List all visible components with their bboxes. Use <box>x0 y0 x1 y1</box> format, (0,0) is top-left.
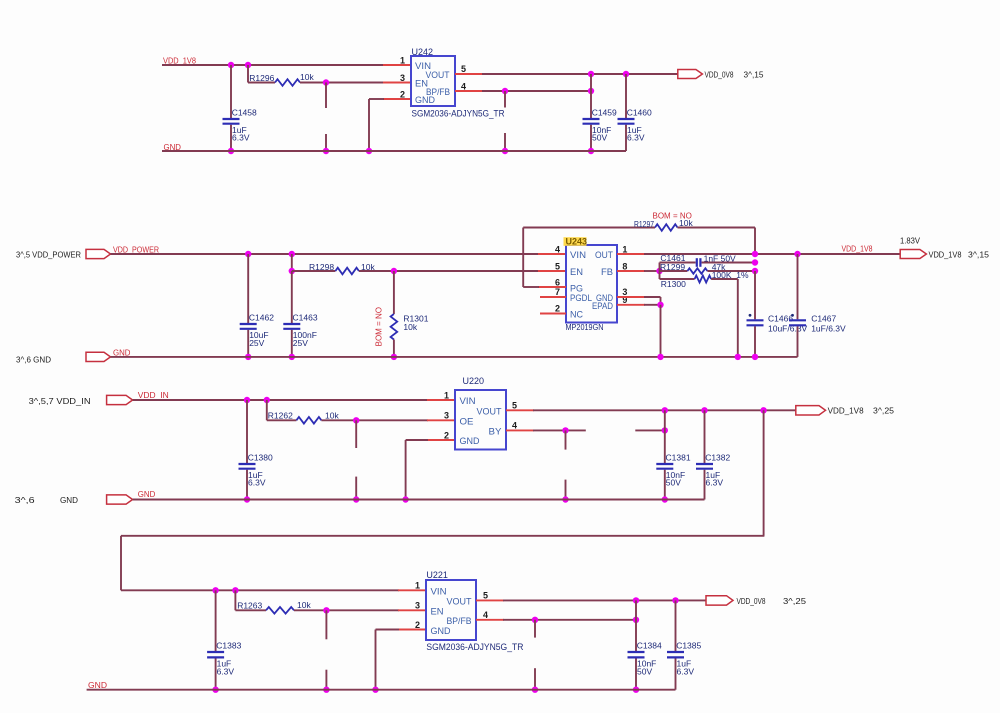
svg-text:OUT: OUT <box>595 250 613 261</box>
svg-text:VDD_1V8: VDD_1V8 <box>163 56 196 66</box>
wire C1461 right lead <box>702 262 755 264</box>
svg-text:7: 7 <box>555 287 560 297</box>
svg-text:C1466: C1466 <box>768 313 793 323</box>
junction C1458 on GND rail <box>228 148 234 154</box>
wire R1300 to GND <box>711 278 738 280</box>
svg-text:C1459: C1459 <box>592 108 617 118</box>
junction DNI stub on GND rail (x=535) <box>532 687 538 693</box>
svg-text:MP2019GN: MP2019GN <box>566 322 604 332</box>
highlight behind U243 refdes <box>564 237 587 246</box>
junction VOUT at C1381 <box>662 407 668 413</box>
svg-text:GND: GND <box>431 626 451 637</box>
wire DNI stub lower (x=326) <box>325 134 327 151</box>
GND rail section 3 <box>133 499 705 501</box>
junction at C1383 <box>212 587 218 593</box>
junction at C1462 <box>245 251 251 257</box>
svg-text:10k: 10k <box>300 72 314 82</box>
resistor R1300 <box>695 276 712 283</box>
output port VDD_1V8 (section 3) <box>796 406 826 415</box>
svg-text:1: 1 <box>444 390 449 400</box>
svg-text:GND: GND <box>138 489 156 499</box>
svg-text:VIN: VIN <box>570 250 586 261</box>
svg-text:1uF/6.3V: 1uF/6.3V <box>811 323 846 333</box>
junction OUT at R1297/C1466 trunk <box>752 251 758 257</box>
resistor R1296 <box>275 79 300 86</box>
svg-text:C1383: C1383 <box>216 641 241 651</box>
capacitor C1463 <box>291 271 293 323</box>
pin stub U220 pin 1 VIN <box>427 399 455 401</box>
svg-text:VOUT: VOUT <box>426 70 450 81</box>
input port GND (section 3) <box>107 495 133 504</box>
capacitor C1462 <box>247 254 249 323</box>
resistor R1298 <box>335 268 359 275</box>
wire PG feedback loop <box>523 286 539 288</box>
IC U242 body <box>411 56 455 106</box>
input port GND (section 2) <box>86 352 111 361</box>
svg-text:4: 4 <box>483 610 488 620</box>
wire R1298 left lead <box>292 270 336 272</box>
wire R1300 left lead <box>660 278 695 280</box>
svg-text:VDD_0V8: VDD_0V8 <box>737 596 766 606</box>
pin stub U243 pin 1 OUT <box>617 253 645 255</box>
svg-text:C1460: C1460 <box>627 108 652 118</box>
wire R1300 branch drop <box>659 271 661 279</box>
IC U243 body <box>566 245 617 323</box>
capacitor C1382 <box>704 410 706 463</box>
wire DNI stub upper (x=356) <box>355 420 357 448</box>
svg-text:VDD_1V8: VDD_1V8 <box>842 244 873 254</box>
svg-text:EN: EN <box>570 267 583 278</box>
pin stub U221 pin 4 BP/FB <box>476 619 504 621</box>
svg-text:1.83V: 1.83V <box>900 237 921 246</box>
svg-text:C1385: C1385 <box>676 641 701 651</box>
pin stub U243 pin 4 VIN <box>538 253 566 255</box>
svg-text:GND: GND <box>415 95 435 106</box>
svg-text:SGM2036-ADJYN5G_TR: SGM2036-ADJYN5G_TR <box>412 109 505 119</box>
pin stub U243 pin 7 PGDL (no connect) <box>540 296 566 298</box>
svg-text:R1298: R1298 <box>309 262 334 272</box>
svg-text:5: 5 <box>512 401 517 411</box>
junction DNI stub on GND rail <box>323 148 329 154</box>
wire R1301 bottom lead <box>393 340 395 357</box>
wire R1301 top lead <box>393 271 395 314</box>
capacitor C1385 <box>675 600 677 651</box>
svg-text:50V: 50V <box>637 666 652 676</box>
wire R1262 branch drop <box>266 400 268 420</box>
svg-text:C1462: C1462 <box>249 313 274 323</box>
capacitor C1461 (horizontal) <box>696 258 698 267</box>
junction VOUT at C1385 <box>672 597 678 603</box>
capacitor C1467 (polarized) <box>797 254 799 319</box>
wire U220 GND to rail <box>406 439 428 441</box>
capacitor C1466 (polarized) <box>754 271 756 319</box>
pin stub U221 pin 3 EN <box>398 609 426 611</box>
svg-text:3^,25: 3^,25 <box>873 406 894 416</box>
wire R1297 to OUT node <box>678 227 756 229</box>
wire R1299 left lead <box>660 270 688 272</box>
junction R1301 on GND rail <box>391 354 397 360</box>
wire BY to stub node <box>533 429 586 431</box>
junction FB node <box>656 268 662 274</box>
svg-text:C1380: C1380 <box>248 453 273 463</box>
svg-text:2: 2 <box>555 304 560 314</box>
wire C1461 branch riser <box>659 263 661 272</box>
junction VOUT at C1460 <box>623 71 629 77</box>
wire VDD_POWER to U243 pin 4 <box>111 253 540 255</box>
svg-text:PGDL: PGDL <box>570 293 592 304</box>
pin stub U221 pin 1 VIN <box>398 589 426 591</box>
svg-text:6.3V: 6.3V <box>677 666 695 676</box>
svg-text:SGM2036-ADJYN5G_TR: SGM2036-ADJYN5G_TR <box>426 642 523 652</box>
junction VOUT at C1382 <box>701 407 707 413</box>
junction EN node <box>323 79 329 85</box>
svg-text:1: 1 <box>622 244 627 254</box>
svg-text:3: 3 <box>400 73 405 83</box>
svg-text:6.3V: 6.3V <box>706 478 724 488</box>
svg-text:OE: OE <box>460 417 474 428</box>
wire DNI stub lower (x=326) <box>325 670 327 690</box>
junction BP/FB stub node <box>502 88 508 94</box>
junction VOUT at C1459 <box>588 71 594 77</box>
pin stub U242 pin 1 VIN <box>383 64 411 66</box>
wire BP/FB to C1459 node <box>482 90 591 92</box>
svg-text:U243: U243 <box>566 236 588 246</box>
input port VDD_POWER <box>86 249 111 258</box>
svg-text:GND: GND <box>113 347 131 357</box>
IC U221 body <box>426 580 476 640</box>
wire DNI stub upper (x=535) <box>534 620 536 638</box>
svg-text:3: 3 <box>444 411 449 421</box>
svg-text:R1297: R1297 <box>634 219 654 229</box>
wire R1296 left lead <box>248 82 275 84</box>
junction OUT at C1467 <box>794 251 800 257</box>
svg-text:4: 4 <box>555 244 560 254</box>
wire VDD_1V8 net to U242 pin 1 <box>162 64 384 66</box>
junction DNI stub on GND rail (x=356) <box>353 496 359 502</box>
wire R1263 left lead <box>235 609 266 611</box>
pin stub U242 pin 5 VOUT <box>455 73 483 75</box>
junction BP/FB stub node <box>532 617 538 623</box>
svg-text:VDD_1V8: VDD_1V8 <box>828 406 864 416</box>
wire DNI stub upper (x=326) <box>325 610 327 639</box>
svg-text:8: 8 <box>622 261 627 271</box>
capacitor C1383 <box>215 590 217 651</box>
svg-text:2: 2 <box>400 90 405 100</box>
svg-text:1: 1 <box>400 56 405 66</box>
wire DNI stub upper (x=326) <box>325 83 327 109</box>
IC U220 body <box>455 390 506 450</box>
junction at R1262 tap <box>264 397 270 403</box>
wire route down to U221 row <box>120 536 122 591</box>
resistor R1297 <box>655 224 678 231</box>
resistor R1301 (vertical) <box>391 314 398 340</box>
junction OE node <box>353 417 359 423</box>
junction at R1296 tap <box>245 62 251 68</box>
svg-text:3^,6 GND: 3^,6 GND <box>16 355 51 365</box>
junction C1463 on GND rail <box>289 354 295 360</box>
wire OUT to output port <box>644 253 900 255</box>
GND rail section 2 <box>111 356 798 358</box>
wire DNI stub lower (x=356) <box>355 477 357 500</box>
wire R1262 left lead <box>267 419 297 421</box>
svg-text:EPAD: EPAD <box>592 301 613 312</box>
pin stub U243 pin 2 NC (no connect) <box>540 313 566 315</box>
junction C1459 on GND rail <box>588 148 594 154</box>
svg-text:10k: 10k <box>679 218 693 228</box>
wire U242 GND to rail <box>369 98 384 100</box>
svg-text:C1463: C1463 <box>293 313 318 323</box>
svg-text:U242: U242 <box>412 47 434 57</box>
svg-text:C1382: C1382 <box>705 453 730 463</box>
svg-text:R1263: R1263 <box>237 601 262 611</box>
pin stub U242 pin 2 GND <box>383 98 411 100</box>
svg-text:R1262: R1262 <box>268 411 293 421</box>
capacitor C1459 <box>590 74 592 118</box>
svg-text:GND: GND <box>88 680 107 690</box>
pin stub U243 pin 8 FB <box>617 270 645 272</box>
svg-text:6.3V: 6.3V <box>627 133 645 143</box>
junction EN node at R1301 <box>391 268 397 274</box>
capacitor C1458 <box>230 65 232 118</box>
svg-text:VIN: VIN <box>460 396 476 407</box>
svg-text:6.3V: 6.3V <box>248 478 266 488</box>
resistor R1263 <box>266 607 294 614</box>
svg-text:GND: GND <box>60 495 78 505</box>
svg-text:10k: 10k <box>325 411 339 421</box>
wire VDD to U221 pin 1 <box>121 589 399 591</box>
pin stub U221 pin 2 GND <box>398 629 426 631</box>
svg-text:VDD_0V8: VDD_0V8 <box>705 69 734 79</box>
junction DNI series at C1381 <box>662 427 668 433</box>
junction at C1463/EN branch <box>289 251 295 257</box>
pin stub U242 pin 4 BP/FB <box>455 90 483 92</box>
junction U221 GND on rail <box>372 687 378 693</box>
svg-text:2: 2 <box>444 430 449 440</box>
svg-text:C1467: C1467 <box>811 313 836 323</box>
junction C1466 on GND rail <box>752 354 758 360</box>
capacitor C1460 <box>625 74 627 118</box>
capacitor C1384 <box>635 600 637 651</box>
svg-text:2: 2 <box>415 620 420 630</box>
junction C1461 at trunk <box>752 259 758 265</box>
svg-text:VDD_1V8: VDD_1V8 <box>929 250 962 260</box>
pin stub U242 pin 3 EN <box>383 82 411 84</box>
GND rail section 4 <box>87 689 676 691</box>
pin stub U221 pin 5 VOUT <box>476 599 504 601</box>
wire VOUT to output port <box>482 73 678 75</box>
wire R1298 to U243 EN <box>359 270 539 272</box>
svg-text:3^,15: 3^,15 <box>968 250 989 260</box>
wire pin3 GND to EPAD join <box>644 296 661 298</box>
junction VOUT at C1384 <box>633 597 639 603</box>
svg-text:BOM = NO: BOM = NO <box>375 307 384 346</box>
wire R1262 to U220 OE <box>321 419 428 421</box>
svg-text:50V: 50V <box>666 478 681 488</box>
svg-text:6.3V: 6.3V <box>217 666 235 676</box>
junction at R1263 tap <box>232 587 238 593</box>
output port VDD_0V8 (section 4) <box>706 596 733 605</box>
svg-text:C1458: C1458 <box>232 108 257 118</box>
pin stub U243 pin 9 EPAD <box>617 304 645 306</box>
junction R1300 on GND rail <box>735 354 741 360</box>
junction DNI stub on GND rail (x=326) <box>323 687 329 693</box>
wire DNI stub upper (x=505) <box>504 91 506 108</box>
svg-text:3^,6: 3^,6 <box>15 495 35 505</box>
junction C1381 on GND rail <box>662 496 668 502</box>
input port VDD_IN <box>107 395 133 404</box>
junction VOUT at route down <box>760 407 766 413</box>
output port VDD_1V8 (section 2) <box>900 250 926 259</box>
junction R1299 at trunk <box>752 268 758 274</box>
junction DNI stub on GND rail (x=565) <box>562 496 568 502</box>
wire FB to divider node <box>644 270 660 272</box>
svg-text:NC: NC <box>570 310 583 321</box>
junction DNI stub on GND rail (x=505) <box>502 148 508 154</box>
junction BP/FB at C1459 <box>588 88 594 94</box>
wire route VOUT down <box>763 410 765 536</box>
junction BY node <box>562 427 568 433</box>
svg-text:6.3V: 6.3V <box>232 133 250 143</box>
svg-text:6: 6 <box>555 277 560 287</box>
svg-text:3^,5,7 VDD_IN: 3^,5,7 VDD_IN <box>29 396 91 406</box>
wire DNI stub lower (x=535) <box>534 668 536 690</box>
svg-text:3^,15: 3^,15 <box>744 69 764 79</box>
output port VDD_0V8 (section 1) <box>678 70 703 79</box>
wire VOUT to output port <box>503 599 706 601</box>
svg-text:R1296: R1296 <box>249 73 274 83</box>
pin stub U220 pin 2 GND <box>427 439 455 441</box>
svg-text:4: 4 <box>512 420 517 430</box>
junction at C1380 <box>244 397 250 403</box>
wire C1461 left lead <box>660 262 696 264</box>
wire GND/EPAD down to rail <box>660 305 662 357</box>
svg-text:50V: 50V <box>592 133 607 143</box>
svg-text:1: 1 <box>415 581 420 591</box>
svg-text:VIN: VIN <box>431 587 447 598</box>
svg-text:FB: FB <box>601 267 613 278</box>
pin stub U220 pin 4 BY <box>506 429 534 431</box>
wire BP/FB to C1384 <box>503 619 636 621</box>
wire route horizontal <box>121 535 764 537</box>
svg-text:C1381: C1381 <box>666 453 691 463</box>
wire DNI stub lower (x=565) <box>565 480 567 500</box>
wire C1463 branch drop <box>291 254 293 271</box>
junction BP/FB at C1384 <box>633 617 639 623</box>
wire EN branch drop <box>247 65 249 83</box>
svg-text:3^,5 VDD_POWER: 3^,5 VDD_POWER <box>16 250 81 260</box>
svg-text:5: 5 <box>555 261 560 271</box>
pin stub U243 pin 3 GND <box>617 296 645 298</box>
svg-text:U220: U220 <box>463 376 485 386</box>
resistor R1299 <box>687 268 707 273</box>
junction U220 GND on rail <box>402 496 408 502</box>
wire R1263 branch drop <box>234 590 236 610</box>
pin stub U243 pin 5 EN <box>538 270 566 272</box>
svg-text:U221: U221 <box>426 570 448 580</box>
capacitor C1380 <box>246 400 248 463</box>
svg-text:VDD_IN: VDD_IN <box>138 390 169 400</box>
svg-text:10k: 10k <box>403 322 417 332</box>
junction at C1458 tap <box>228 62 234 68</box>
pin stub U220 pin 3 OE <box>427 419 455 421</box>
svg-text:VOUT: VOUT <box>447 597 472 608</box>
GND rail section 1 <box>162 150 626 152</box>
wire VDD_IN to U220 pin 1 <box>133 399 428 401</box>
wire R1299 right lead <box>707 270 755 272</box>
wire VOUT to output port <box>533 409 796 411</box>
junction GND/EPAD on rail <box>657 354 663 360</box>
svg-text:EN: EN <box>431 607 444 618</box>
svg-text:R1300: R1300 <box>661 279 686 289</box>
svg-text:GND: GND <box>460 436 480 447</box>
svg-text:25V: 25V <box>293 338 308 348</box>
svg-text:R1299: R1299 <box>660 262 685 272</box>
wire DNI series right segment <box>635 429 665 431</box>
capacitor C1381 <box>664 410 666 463</box>
wire DNI stub upper (x=565) <box>565 430 567 449</box>
wire DNI stub lower (x=505) <box>504 133 506 151</box>
svg-text:BY: BY <box>489 427 503 438</box>
wire EPAD to join <box>644 304 661 306</box>
junction EN node <box>323 607 329 613</box>
junction EN branch at C1463 <box>289 268 295 274</box>
svg-text:10k: 10k <box>297 600 311 610</box>
resistor R1262 <box>296 417 321 424</box>
wire R1263 to U221 EN <box>294 609 399 611</box>
svg-text:C1384: C1384 <box>637 641 662 651</box>
svg-text:25V: 25V <box>249 338 264 348</box>
junction GND/EPAD join <box>657 302 663 308</box>
svg-text:3^,25: 3^,25 <box>783 596 806 606</box>
wire R1296 to EN node <box>300 82 384 84</box>
junction C1383 on GND rail <box>212 687 218 693</box>
wire U221 GND to rail <box>376 629 400 631</box>
junction U242 GND on rail <box>366 148 372 154</box>
junction C1462 on GND rail <box>245 354 251 360</box>
pin stub U243 pin 6 PG <box>538 286 566 288</box>
junction C1380 on GND rail <box>244 496 250 502</box>
svg-text:5: 5 <box>483 591 488 601</box>
pin stub U220 pin 5 VOUT <box>506 409 534 411</box>
svg-text:5: 5 <box>461 64 466 74</box>
junction C1384 on GND rail <box>633 687 639 693</box>
svg-text:3: 3 <box>415 601 420 611</box>
svg-text:VOUT: VOUT <box>477 407 502 418</box>
